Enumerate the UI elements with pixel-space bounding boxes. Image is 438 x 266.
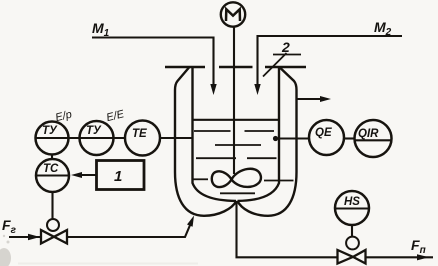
label 2 with leader [281,39,290,55]
wire sensor to QE [276,137,310,139]
svg-text:1: 1 [114,168,122,185]
wire vessel outlet [237,201,338,257]
vessel jacket outer wall left [175,68,237,216]
valve V2 body [338,250,366,264]
wire box1 to TC arrow [71,172,97,178]
node Fp label [411,237,426,256]
vessel inner wall right [238,68,280,201]
wire HS to valve [351,225,353,237]
product arrowhead [417,254,429,260]
wire M1 feed [92,38,217,96]
wire product line after valve [366,256,434,258]
liquid surface [193,119,279,121]
wire Fg feed [9,234,41,240]
liquid dash rows [193,131,294,193]
svg-text:HS: HS [344,196,360,208]
motor U (M) [221,2,245,26]
instrument HS [335,191,369,225]
vessel rim [165,66,306,68]
instrument line left row [36,137,126,139]
instrument QE [309,120,344,155]
node M2 label [374,19,392,38]
svg-text:QE: QE [315,127,332,139]
valve V1 actuator [47,219,59,231]
impeller (stirrer) [212,169,261,187]
instrument TY2 [80,121,114,155]
node Fg label [2,217,17,236]
wire TC to valve [51,192,53,220]
label E/E [105,108,126,124]
sensor node dot [273,136,278,141]
instrument TY1 [36,122,69,155]
wire Fg to jacket [67,216,194,238]
vessel jacket outer wall right [237,68,296,216]
scan smudge bottom-left [0,235,198,266]
valve V2 actuator [346,237,359,250]
svg-text:QIR: QIR [358,128,379,140]
wire QE to QIR [344,137,355,139]
wire M2 feed [254,36,402,95]
wire TE to vessel [160,137,193,139]
svg-text:2: 2 [281,39,290,55]
instrument TE [125,121,160,156]
svg-text:ТУ: ТУ [86,125,102,137]
vessel inner wall left [193,68,237,201]
controller box 1 [97,161,145,190]
node M1 label [92,20,110,39]
stirrer shaft wire [233,26,235,174]
valve V1 body [41,230,67,244]
svg-text:ТЕ: ТЕ [132,128,147,140]
svg-text:ТС: ТС [43,163,59,175]
svg-text:ТУ: ТУ [42,125,58,137]
label E/p [54,109,73,125]
instrument TC [36,159,69,192]
instrument QIR [355,120,392,157]
wire jacket outlet [297,96,332,102]
wire TY1 to TC [51,155,53,160]
